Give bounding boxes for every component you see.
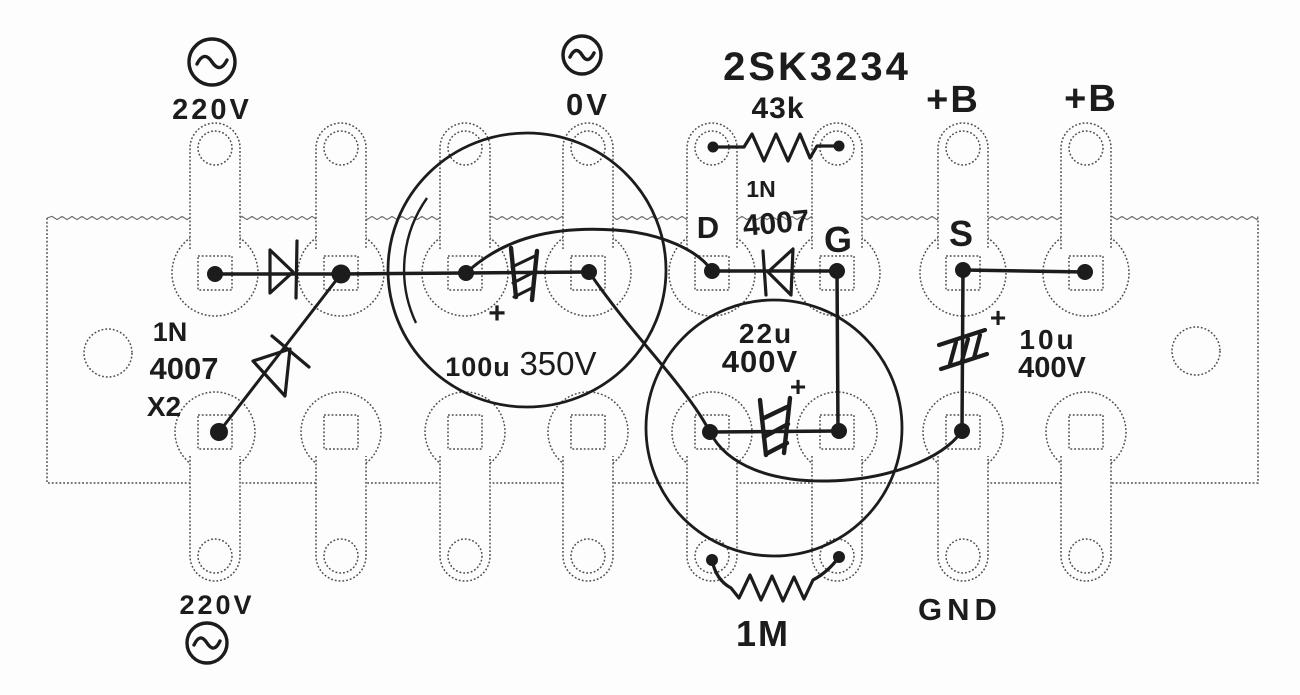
node +B lug8	[1077, 264, 1093, 280]
diode D1 (1N4007)	[270, 241, 297, 298]
node lug2 top	[332, 265, 351, 284]
node D	[704, 263, 720, 279]
diode D2 (1N4007)	[253, 336, 309, 396]
terminal lug 7 (bottom)	[923, 392, 1003, 581]
svg-text:1M: 1M	[736, 613, 790, 654]
wire: arc lug3 to D pad	[466, 229, 712, 273]
svg-text:400V: 400V	[722, 344, 798, 379]
wire: G pad down to bottom lug6	[837, 271, 838, 431]
capacitor C2 outline (22u 400V can)	[646, 300, 902, 556]
terminal lug 3 (top)	[422, 123, 508, 316]
capacitor C1 outline (100u 350V can)	[388, 133, 666, 407]
svg-text:1N: 1N	[746, 176, 775, 202]
svg-text:+B: +B	[1064, 78, 1118, 120]
svg-text:+: +	[990, 302, 1006, 333]
svg-text:X2: X2	[147, 391, 181, 422]
terminal lug 1 (bottom)	[175, 392, 255, 581]
wire: arc bottom lug5 to GND pad	[710, 431, 962, 481]
wire: arc lug4 down to bottom lug5	[589, 272, 710, 432]
AC source symbol top (220V)	[189, 39, 235, 85]
svg-text:4007: 4007	[741, 204, 810, 243]
terminal lug 3 (bottom)	[425, 392, 505, 581]
node lug1 top	[207, 266, 223, 282]
node lug3 top	[458, 265, 474, 281]
svg-text:0V: 0V	[566, 87, 610, 122]
mounting hole right	[1172, 327, 1220, 375]
terminal lug 6 (bottom)	[797, 392, 877, 581]
wire: D pad to diode D3 to G pad	[712, 269, 837, 273]
node lug4 top	[581, 264, 597, 280]
terminal lug 5 (bottom)	[672, 392, 752, 581]
svg-text:+: +	[488, 297, 506, 330]
wire: AC 220V lug1 to diode D1 to lug2	[215, 272, 341, 276]
wire: S pad down through C3 to GND pad	[962, 270, 963, 431]
mounting hole left	[84, 329, 132, 377]
terminal lug 6 (top)	[794, 123, 880, 316]
node bottom lug1	[210, 423, 228, 441]
svg-text:100u: 100u	[445, 352, 511, 382]
svg-text:S: S	[949, 213, 973, 254]
node GND pad	[954, 423, 970, 439]
svg-text:+B: +B	[926, 79, 980, 121]
AC source symbol top right (0V)	[563, 36, 601, 74]
terminal lug 7 (top)	[920, 123, 1006, 316]
capacitor C3 plates (10u)	[939, 330, 987, 369]
node G	[829, 263, 845, 279]
svg-text:220V: 220V	[172, 94, 252, 126]
terminal lug 1 (top)	[172, 123, 258, 316]
wire: bottom lug5 to C2 to bottom lug6	[710, 431, 839, 432]
svg-text:43k: 43k	[751, 92, 804, 125]
terminal lug 5 (top)	[669, 123, 755, 316]
tag strip board outline	[47, 216, 1258, 219]
svg-text:400V: 400V	[1018, 352, 1086, 384]
svg-text:1N: 1N	[153, 317, 188, 347]
terminal lug 8 (top)	[1043, 123, 1129, 316]
svg-text:350V: 350V	[519, 345, 596, 382]
diode D3 (1N4007)	[763, 249, 793, 295]
terminal lug 2 (bottom)	[301, 392, 381, 581]
svg-text:10u: 10u	[1019, 324, 1076, 355]
AC source symbol bottom (220V)	[187, 623, 227, 663]
svg-text:2SK3234: 2SK3234	[723, 45, 911, 89]
resistor R2 (1M)	[712, 557, 839, 601]
svg-text:G: G	[824, 219, 852, 260]
svg-text:D: D	[697, 210, 719, 245]
node S	[955, 262, 971, 278]
wire: diagonal lug2 to bottom lug1	[219, 274, 341, 432]
wire: S pad to +B lug8	[963, 270, 1085, 272]
wire: lug3 to lug4 through C1	[466, 272, 588, 273]
terminal lug 4 (top)	[545, 123, 631, 316]
node bottom lug6	[831, 423, 847, 439]
svg-text:220V: 220V	[179, 590, 254, 620]
terminal lug 8 (bottom)	[1046, 392, 1126, 581]
terminal lug 2 (top)	[298, 123, 384, 316]
terminal lug 4 (bottom)	[548, 392, 628, 581]
node bottom lug5	[702, 424, 718, 440]
svg-text:4007: 4007	[150, 351, 219, 386]
capacitor C1 plates (100u)	[511, 248, 537, 300]
resistor R1 (43k)	[713, 134, 839, 161]
capacitor C2 plates (22u)	[760, 398, 790, 455]
wire: lug2 to lug3	[341, 273, 466, 274]
svg-text:GND: GND	[918, 592, 1002, 627]
